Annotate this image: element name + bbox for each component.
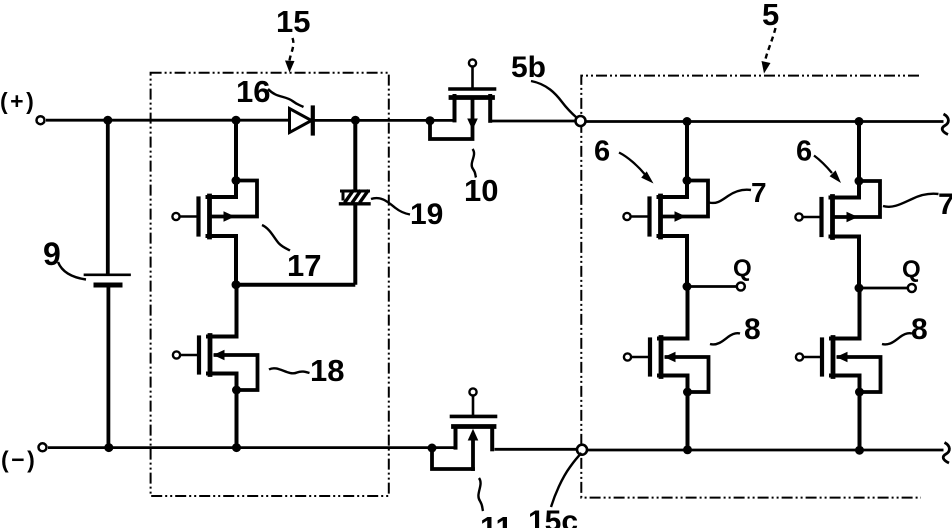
svg-text:16: 16 bbox=[236, 74, 270, 109]
transistor 7 (first, p-channel) bbox=[623, 181, 708, 287]
diode 16 bbox=[290, 108, 313, 134]
enclosure box 15 (phantom dash-dot border) bbox=[151, 73, 389, 496]
wire: output Q lead (first) bbox=[687, 285, 737, 288]
svg-text:8: 8 bbox=[911, 313, 928, 346]
node 5b bbox=[576, 116, 586, 126]
leader line 10 bbox=[472, 149, 476, 178]
leader line 19 bbox=[371, 198, 410, 214]
junction: transistor 8 source / bulk tie (second) bbox=[855, 388, 864, 397]
junction: battery negative / bottom rail bbox=[104, 443, 113, 452]
transistor 8 (second, n-channel) bbox=[796, 288, 881, 392]
leader line 17 bbox=[262, 225, 290, 251]
terminal Q (second) bbox=[908, 284, 916, 292]
svg-text:15c: 15c bbox=[528, 505, 578, 528]
enclosure box 5 (phantom dash-dot border, open right side) bbox=[581, 76, 921, 498]
svg-text:9: 9 bbox=[43, 236, 61, 272]
junction: transistor 17 drain / bulk tie bbox=[232, 176, 241, 185]
terminal Q (first) bbox=[737, 283, 745, 291]
junction: bottom rail / inverter 2 bbox=[855, 446, 864, 455]
junction: bottom rail / transistor 18 branch bbox=[232, 443, 241, 452]
svg-text:10: 10 bbox=[464, 173, 498, 208]
leader line 7 (first) bbox=[709, 190, 751, 203]
svg-text:(−): (−) bbox=[1, 447, 37, 473]
transistor 18 (n-channel MOSFET) bbox=[173, 285, 258, 390]
terminal (+) bbox=[37, 116, 45, 124]
wire: top rail, diode 16 cathode to transistor 10 bbox=[313, 119, 453, 122]
transistor 10 (p-channel MOSFET, pass device in positive rail) bbox=[430, 59, 495, 139]
junction: top rail / fuse 19 branch bbox=[351, 116, 360, 125]
svg-text:5b: 5b bbox=[511, 51, 546, 84]
svg-text:19: 19 bbox=[410, 198, 443, 231]
wire: bottom rail, (-) terminal to transistor 11 bbox=[48, 446, 454, 449]
leader line 18 bbox=[269, 368, 310, 373]
arrow 6 to transistor pair (second) bbox=[814, 156, 832, 174]
transistor 8 (first, n-channel) bbox=[624, 287, 709, 393]
terminal (-) bbox=[39, 443, 47, 451]
svg-text:17: 17 bbox=[287, 248, 321, 283]
junction: top rail / inverter 2 drain branch bbox=[855, 117, 864, 126]
junction: top rail / transistor 10 bulk hook bbox=[426, 116, 435, 125]
arrow to box 5 bbox=[765, 28, 775, 60]
leader line 8 (first) bbox=[710, 333, 740, 344]
arrow 6 to transistor pair (first) bbox=[619, 153, 645, 175]
svg-text:5: 5 bbox=[762, 0, 779, 32]
junction: node B (17 source / 18 drain / fuse 19) bbox=[232, 280, 241, 289]
wire: inverter 1 branch down to transistor 7 bbox=[685, 122, 689, 181]
wire: bottom rail, transistor 11 to node 15c bbox=[495, 448, 579, 451]
arrow to box 15 bbox=[289, 38, 293, 62]
wire: fuse 19 lower lead bbox=[353, 205, 357, 285]
svg-text:6: 6 bbox=[594, 136, 610, 168]
wire: battery negative lead bbox=[107, 288, 111, 448]
wire break mark, bottom rail right end bbox=[943, 443, 949, 464]
junction: top rail / inverter 1 drain branch bbox=[683, 117, 692, 126]
wire: 8 source down to bottom rail (second) bbox=[858, 392, 862, 450]
wire: bottom rail, node 15c to right edge bbox=[586, 449, 944, 452]
wire: top rail, (+) terminal to diode 16 anode bbox=[46, 119, 290, 122]
svg-text:15: 15 bbox=[276, 4, 310, 39]
leader line 16 bbox=[268, 89, 304, 107]
transistor 11 (n-channel MOSFET, pass device in negative rail) bbox=[432, 388, 496, 469]
svg-text:Q: Q bbox=[902, 256, 921, 283]
junction: transistor 18 source / bulk tie bbox=[232, 386, 241, 395]
leader line 15c bbox=[551, 453, 582, 507]
node 15c bbox=[577, 445, 587, 455]
wire: node B horizontal (17 source to fuse 19 bottom) bbox=[236, 283, 355, 287]
transistor 7 (second, p-channel) bbox=[795, 181, 880, 288]
wire: battery positive lead bbox=[106, 120, 110, 273]
wire: inverter 2 branch down to transistor 7 bbox=[857, 122, 861, 182]
wire: output Q lead (second) bbox=[859, 287, 908, 290]
battery 9 bbox=[85, 275, 130, 285]
junction: top rail / transistor 17 drain branch bbox=[232, 116, 241, 125]
junction: battery positive / top rail bbox=[103, 116, 112, 125]
svg-text:8: 8 bbox=[744, 313, 761, 346]
svg-text:11: 11 bbox=[480, 510, 513, 528]
svg-text:Q: Q bbox=[733, 255, 752, 282]
wire: 8 source down to bottom rail (first) bbox=[686, 392, 690, 450]
leader line 11 bbox=[478, 478, 483, 511]
junction: output node Q (second) bbox=[855, 284, 864, 293]
svg-text:7: 7 bbox=[938, 188, 952, 221]
leader line 5b bbox=[531, 81, 577, 118]
wire break mark, top rail right end bbox=[942, 114, 948, 135]
svg-text:7: 7 bbox=[751, 177, 767, 208]
junction: output node Q (first) bbox=[683, 282, 692, 291]
junction: bottom rail / inverter 1 bbox=[683, 445, 692, 454]
junction: transistor 7 drain / bulk tie (first) bbox=[683, 176, 692, 185]
leader line 7 (second) bbox=[883, 194, 939, 207]
svg-text:(+): (+) bbox=[0, 88, 36, 114]
svg-text:18: 18 bbox=[310, 353, 344, 388]
junction: transistor 8 source / bulk tie (first) bbox=[683, 388, 692, 397]
wire: top rail, transistor 10 to node 5b bbox=[491, 120, 578, 123]
wire: 18 source down to bottom rail bbox=[235, 390, 239, 448]
fuse 19 (hatched element) bbox=[341, 191, 370, 204]
junction: bottom rail / transistor 11 bulk hook bbox=[428, 444, 437, 453]
transistor 17 (p-channel MOSFET) bbox=[172, 181, 257, 285]
leader line 9 bbox=[58, 262, 86, 280]
junction: transistor 7 drain / bulk tie (second) bbox=[855, 177, 864, 186]
wire: top rail, node 5b to right edge bbox=[585, 120, 944, 123]
svg-text:6: 6 bbox=[796, 136, 812, 168]
leader line 8 (second) bbox=[882, 333, 912, 344]
wire: fuse 19 upper lead bbox=[353, 120, 357, 190]
wire: drain branch down to transistor 17 bbox=[234, 120, 238, 180]
